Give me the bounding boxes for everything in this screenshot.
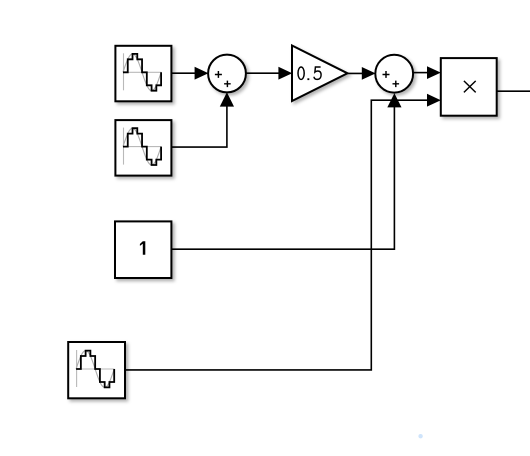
- Sine Wave 2 block: [115, 120, 171, 176]
- wire from Gain to Sum 2 left input: [348, 67, 376, 80]
- wire from Sine Wave 3 to Product input 2: [125, 94, 441, 370]
- wire from Sum 1 to Gain input: [246, 67, 292, 80]
- Constant block 1: [115, 221, 171, 278]
- wire from Product output to right edge: [497, 90, 530, 92]
- Gain block 0.5: [292, 46, 348, 102]
- Product block: [441, 58, 497, 116]
- wire from Sine Wave 1 to Sum 1 left input: [171, 67, 208, 80]
- Sum 2 block: [375, 55, 413, 93]
- Sum 1 block: [208, 55, 246, 93]
- Sine Wave 1 block: [115, 46, 171, 102]
- wire from Sum 2 to Product input 1: [413, 66, 441, 79]
- wire from Constant up to Sum 2 bottom input: [171, 93, 401, 249]
- wire from Sine Wave 2 up to Sum 1 bottom input: [171, 92, 234, 147]
- Sine Wave 3 block: [68, 342, 125, 398]
